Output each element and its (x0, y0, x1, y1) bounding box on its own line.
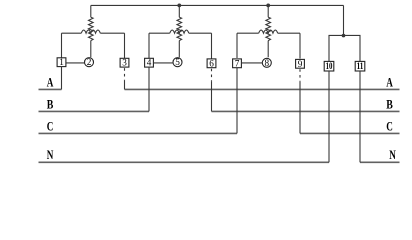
svg-text:1: 1 (59, 57, 64, 67)
svg-text:A: A (386, 75, 393, 89)
svg-text:11: 11 (357, 61, 364, 71)
svg-text:N: N (389, 148, 396, 162)
svg-text:2: 2 (87, 57, 92, 67)
svg-text:C: C (386, 119, 393, 133)
svg-text:9: 9 (298, 59, 303, 69)
svg-text:8: 8 (265, 58, 270, 68)
svg-text:6: 6 (209, 58, 214, 68)
svg-text:A: A (47, 75, 54, 89)
svg-text:B: B (386, 97, 393, 111)
svg-text:C: C (47, 119, 54, 133)
svg-text:N: N (47, 148, 54, 162)
svg-text:4: 4 (147, 58, 152, 68)
svg-text:7: 7 (235, 58, 240, 68)
svg-text:B: B (47, 97, 54, 111)
svg-text:5: 5 (175, 57, 180, 67)
svg-text:3: 3 (122, 58, 127, 68)
svg-text:10: 10 (326, 61, 333, 71)
